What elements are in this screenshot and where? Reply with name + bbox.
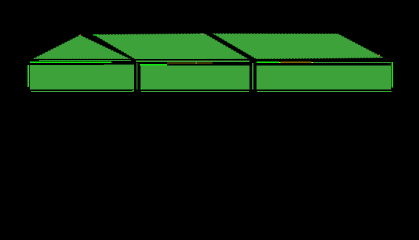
orange vertex dot at right roof bottom-right corner	[378, 55, 380, 56]
orange vertex dot at triangle apex	[80, 34, 82, 35]
roof slab front sliver under triangle	[39, 60, 131, 61]
right box top edge yellow vertex dot	[279, 62, 280, 63]
horizontal black band between roofs and boxes	[26, 59, 395, 65]
right box top edge dim green segment	[313, 62, 391, 63]
vertex dot on right olive edge	[312, 62, 314, 63]
side-face sliver between left and middle boxes	[136, 63, 137, 89]
roof panel B (middle parallelogram top face)	[93, 33, 250, 60]
bottom edge line under left box	[31, 91, 134, 92]
vertex dot on middle olive edge	[195, 62, 197, 63]
side-face sliver between middle and right boxes	[252, 63, 253, 89]
bright corner dot left-middle junction	[133, 90, 134, 91]
right box top edge bright segment	[256, 62, 279, 63]
bright corner dot middle box bottom-left	[141, 88, 142, 89]
right box top selected edge (olive)	[280, 62, 311, 63]
right box right profile edge (bright green)	[392, 62, 394, 87]
bright segment at middle roof top-left	[93, 34, 99, 35]
left box front-top edge dim segment	[104, 64, 134, 65]
right box front face	[256, 65, 391, 89]
middle box front face	[140, 66, 249, 90]
bottom edge line under right box	[257, 91, 392, 92]
roof panel C (right parallelogram top face)	[212, 33, 385, 59]
left box left profile edge (bright green)	[28, 65, 30, 87]
left box top edge (bright green)	[30, 61, 112, 62]
grey vertex dot at middle roof top-right corner	[201, 34, 203, 36]
roof panel A (left triangle top face)	[32, 35, 132, 60]
middle box selected edge (olive)	[167, 62, 212, 63]
left box front face	[30, 65, 134, 89]
bottom edge line under middle box	[141, 91, 249, 92]
middle box front-top edge bright segment	[140, 64, 167, 65]
middle box top-face sliver (medium green)	[136, 61, 249, 62]
